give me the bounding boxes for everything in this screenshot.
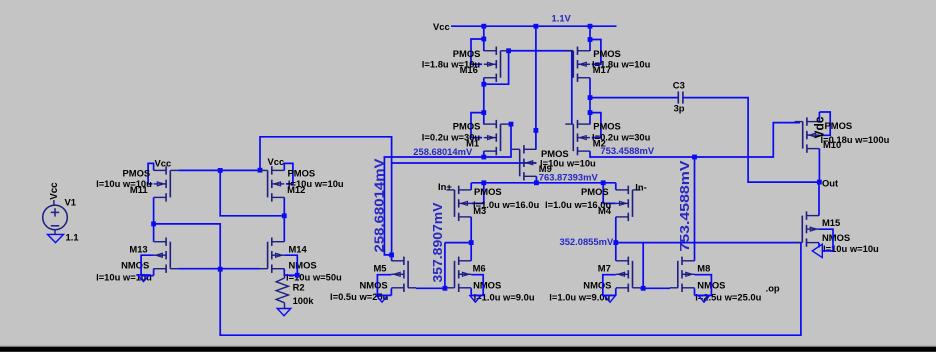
junction M12 M14 drains bbox=[282, 213, 287, 218]
wire M1 diode connection up to gate bbox=[484, 124, 511, 157]
svg-text:M3: M3 bbox=[473, 205, 486, 216]
wire M10 drain to Out bbox=[818, 149, 820, 183]
junction 352 node bbox=[613, 240, 618, 245]
svg-text:Out: Out bbox=[822, 177, 838, 188]
wire M3 source bbox=[470, 183, 472, 190]
svg-text:NMOS: NMOS bbox=[473, 280, 501, 291]
wire M1 drain down bbox=[483, 151, 485, 157]
transistor M15 NMOS bbox=[794, 211, 819, 246]
wire M5 source down bbox=[390, 288, 392, 295]
wire gate net down and to M12 drain bbox=[220, 170, 284, 215]
wire M11 Vcc and body loop bbox=[148, 163, 154, 184]
junction gate bus bottom rail bbox=[218, 267, 223, 272]
junction M4 body on tail bbox=[601, 180, 606, 185]
svg-text:M5: M5 bbox=[374, 263, 387, 274]
wire M8 source down bbox=[694, 288, 696, 295]
ground M15 rotated bbox=[812, 244, 822, 257]
svg-text:M13: M13 bbox=[129, 244, 147, 255]
wire M15 source stub down bbox=[818, 243, 820, 248]
ground R2 bbox=[277, 309, 291, 316]
transistor M17 PMOS bbox=[565, 47, 590, 82]
junction rail M16 bbox=[481, 24, 486, 29]
wire M16 body loop bbox=[471, 39, 484, 64]
ground V1 bbox=[48, 234, 64, 242]
svg-text:NMOS: NMOS bbox=[289, 260, 317, 271]
junction wire A wire B meet bbox=[389, 253, 394, 258]
svg-text:PMOS: PMOS bbox=[593, 120, 621, 131]
transistor M16 PMOS bbox=[484, 47, 509, 82]
wire M3 drain down to 357 node bbox=[470, 217, 472, 261]
svg-text:In-: In- bbox=[635, 182, 646, 193]
wire M9 body to M5 drain node bbox=[392, 163, 537, 255]
wire M3 body bbox=[471, 183, 484, 204]
junction M1 source tee bbox=[481, 110, 486, 115]
junction M11 M13 drain bbox=[151, 222, 156, 227]
svg-text:l=10u w=10u: l=10u w=10u bbox=[823, 243, 879, 254]
transistor M3 PMOS bbox=[447, 186, 472, 221]
svg-text:M17: M17 bbox=[593, 64, 611, 75]
svg-text:258.68014mV: 258.68014mV bbox=[371, 158, 386, 253]
wire Out to M15 drain bbox=[818, 182, 820, 216]
junction M16 drain bbox=[481, 82, 486, 87]
wire Vcc top rail bbox=[451, 25, 617, 27]
junction diode riser on gate bus bbox=[443, 286, 448, 291]
wire M7 diode riser bbox=[642, 243, 644, 289]
junction 357 node bbox=[469, 240, 474, 245]
wire center rail to M9 source bbox=[535, 26, 537, 149]
svg-text:753.4588mV: 753.4588mV bbox=[600, 145, 654, 156]
wire C3 left bbox=[590, 97, 678, 99]
wire M17 source drop from rail bbox=[589, 26, 591, 51]
wire M6 source down bbox=[470, 288, 472, 295]
wire M14 source down to R2 bbox=[284, 269, 297, 276]
svg-text:352.0855mV: 352.0855mV bbox=[560, 236, 614, 247]
transistor M4 PMOS bbox=[616, 186, 641, 221]
junction M17 drain C3 node bbox=[588, 95, 593, 100]
wire M16 source drop from rail bbox=[483, 26, 485, 51]
svg-text:NMOS: NMOS bbox=[360, 280, 388, 291]
resistor R2 bbox=[276, 275, 288, 308]
wire M11 gate bus to M12 bbox=[178, 169, 259, 171]
svg-text:PMOS: PMOS bbox=[825, 120, 853, 131]
wire M9 drain to tail bbox=[535, 176, 537, 183]
wire M13 source down bbox=[153, 269, 155, 276]
svg-text:258.68014mV: 258.68014mV bbox=[413, 146, 473, 157]
transistor M2 PMOS bbox=[565, 120, 590, 155]
svg-text:763.87393mV: 763.87393mV bbox=[539, 171, 599, 182]
wire M12 gate net loop over to M9 body riser bbox=[260, 137, 392, 170]
svg-text:PMOS: PMOS bbox=[581, 186, 609, 197]
junction M12 gate net loop bbox=[258, 168, 263, 173]
wire M12 drain down bbox=[283, 197, 285, 241]
junction M2 source tee bbox=[588, 110, 593, 115]
wire 357 node to diode riser bbox=[445, 242, 471, 244]
svg-text:357.8907mV: 357.8907mV bbox=[430, 202, 445, 282]
junction M11 M12 gate net bbox=[218, 168, 223, 173]
svg-text:Vcc: Vcc bbox=[155, 157, 172, 168]
junction M1 drain bbox=[481, 155, 486, 160]
wire M17 drain down to M2 bbox=[589, 78, 591, 125]
wire C3 right to Out bbox=[683, 98, 820, 183]
window bottom black strip bbox=[0, 346, 936, 347]
junction M8 drain on 753 wire bbox=[692, 155, 697, 160]
wire M15 body loop bbox=[819, 229, 833, 251]
transistor M5 NMOS bbox=[391, 257, 416, 292]
ground M8 bbox=[699, 296, 710, 303]
transistor M1 PMOS bbox=[484, 120, 509, 155]
wire M16 diode gate connection bbox=[484, 51, 509, 84]
junction R2 top bbox=[295, 273, 300, 278]
ground M5 bbox=[377, 296, 388, 303]
wire M10 body loop bbox=[819, 112, 830, 135]
svg-text:M7: M7 bbox=[598, 263, 611, 274]
wire M16 gate to M17 gate and M2 gate bbox=[509, 51, 572, 124]
junction center wire bbox=[534, 128, 539, 133]
svg-text:1.1V: 1.1V bbox=[552, 12, 572, 23]
ground M6 bbox=[470, 296, 481, 303]
svg-text:Vcc: Vcc bbox=[268, 156, 285, 167]
svg-text:.op: .op bbox=[766, 282, 780, 293]
wire M5 M6 gate bus bbox=[416, 287, 447, 289]
svg-text:M8: M8 bbox=[697, 263, 710, 274]
wire M7 body to ground bbox=[603, 275, 616, 296]
wire M2 drain to net 753 bbox=[590, 123, 800, 157]
junction M1 gate bbox=[509, 122, 514, 127]
svg-text:M4: M4 bbox=[598, 205, 612, 216]
transistor M9 PMOS bbox=[512, 145, 537, 180]
wire M4 source bbox=[615, 183, 617, 190]
svg-text:1.1: 1.1 bbox=[66, 231, 79, 242]
transistor M14 NMOS bbox=[260, 238, 285, 273]
wire M4 body bbox=[603, 183, 616, 204]
wire M17 body loop bbox=[590, 40, 601, 65]
wire M13 drain net to bus riser bbox=[154, 224, 221, 269]
transistor M13 NMOS bbox=[154, 238, 179, 273]
svg-text:In+: In+ bbox=[438, 181, 452, 192]
wire net 258 to M5 drain bbox=[384, 157, 483, 261]
wire bottom rail bbox=[220, 243, 801, 336]
svg-text:M14: M14 bbox=[289, 244, 308, 255]
transistor M12 PMOS bbox=[260, 166, 285, 201]
capacitor C3 bbox=[678, 92, 683, 104]
svg-text:M6: M6 bbox=[473, 263, 486, 274]
transistor M7 NMOS bbox=[616, 257, 641, 292]
ground M13 bbox=[138, 275, 150, 282]
svg-text:NMOS: NMOS bbox=[121, 260, 149, 271]
wire M8 drain vertical bbox=[694, 157, 696, 261]
wire M5 body to ground bbox=[377, 275, 391, 296]
wire M11 drain to M13 drain bbox=[153, 197, 155, 241]
svg-text:753.4588mV: 753.4588mV bbox=[677, 160, 692, 252]
wire M13 M14 gate bus bbox=[178, 268, 259, 270]
svg-text:Vcc: Vcc bbox=[433, 21, 450, 32]
junction M9 drain on tail bbox=[534, 180, 539, 185]
junction M7 diode riser on gate bus bbox=[641, 286, 646, 291]
junction M16 gate bbox=[506, 48, 511, 53]
junction rail M17 bbox=[588, 24, 593, 29]
svg-text:Vcc: Vcc bbox=[49, 182, 60, 200]
wire M2 body loop bbox=[590, 113, 601, 138]
svg-text:NMOS: NMOS bbox=[822, 232, 850, 243]
transistor M8 NMOS bbox=[670, 257, 695, 292]
svg-text:M10: M10 bbox=[823, 139, 841, 150]
wire M8 body to ground bbox=[695, 275, 712, 296]
svg-text:V1: V1 bbox=[65, 197, 76, 208]
svg-text:100k: 100k bbox=[293, 295, 315, 306]
wire M10 source up bbox=[818, 112, 820, 122]
wire M6 body to ground bbox=[471, 275, 483, 296]
svg-text:l=1.0u w=9.0u: l=1.0u w=9.0u bbox=[549, 291, 610, 302]
wire M1 body loop bbox=[471, 113, 484, 138]
wire M6 diode riser bbox=[444, 243, 446, 289]
svg-text:NMOS: NMOS bbox=[583, 280, 611, 291]
wire M7 source down bbox=[615, 288, 617, 295]
wire M16 drain to M1 source bbox=[483, 78, 485, 125]
wire M12 Vcc and body loop bbox=[284, 163, 293, 184]
wire M7 M8 gate bus bbox=[640, 287, 670, 289]
wire M4 drain down to 352 node bbox=[615, 217, 617, 261]
svg-text:3p: 3p bbox=[674, 103, 685, 114]
voltage source V1 bbox=[43, 200, 68, 234]
wire input pair tail bbox=[471, 182, 616, 184]
transistor M10 PMOS bbox=[795, 117, 820, 152]
svg-text:M16: M16 bbox=[460, 64, 478, 75]
ground M7 bbox=[605, 296, 616, 303]
svg-text:C3: C3 bbox=[673, 79, 685, 90]
junction M17 source tee bbox=[588, 37, 593, 42]
svg-text:PMOS: PMOS bbox=[453, 120, 481, 131]
junction Out bbox=[817, 180, 822, 185]
wire 352 node to M15 gate bbox=[616, 242, 801, 244]
svg-text:PMOS: PMOS bbox=[474, 186, 502, 197]
svg-text:M15: M15 bbox=[822, 217, 840, 228]
transistor M6 NMOS bbox=[447, 257, 472, 292]
svg-text:M11: M11 bbox=[130, 184, 148, 195]
svg-text:M12: M12 bbox=[287, 184, 305, 195]
junction rail center bbox=[534, 24, 539, 29]
wire M13 body to ground bbox=[141, 255, 154, 275]
transistor M11 PMOS bbox=[154, 166, 179, 201]
wire M14 body loop to R2 node bbox=[284, 255, 297, 275]
svg-text:R2: R2 bbox=[293, 282, 305, 293]
junction M3 body on tail bbox=[481, 180, 486, 185]
junction M16 source tee bbox=[481, 37, 486, 42]
